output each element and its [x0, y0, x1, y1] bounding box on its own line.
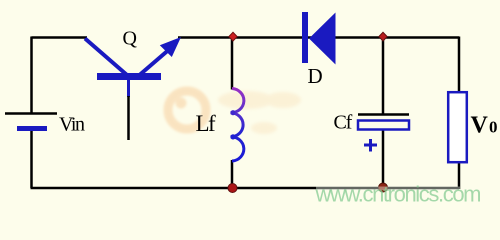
svg-text:D: D	[308, 64, 323, 88]
transistor Q collector diagonal	[85, 39, 127, 76]
transistor Q emitter arrowhead	[160, 37, 181, 57]
svg-text:Lf: Lf	[196, 111, 217, 136]
svg-text:www.cntronics.com: www.cntronics.com	[315, 182, 482, 207]
wire top-right segment	[178, 36, 459, 39]
capacitor Cf plus sign	[364, 139, 377, 152]
wire inductor bottom lead	[231, 160, 234, 188]
inductor Lf coil	[231, 89, 244, 162]
svg-text:Vin: Vin	[59, 114, 85, 136]
wire left lower	[30, 130, 33, 188]
wire bottom	[31, 187, 460, 190]
inductor Lf cusp knob 1	[230, 110, 235, 115]
capacitor Cf bottom plate box	[358, 121, 409, 130]
svg-text:0: 0	[489, 118, 498, 137]
resistor V0 body	[448, 92, 467, 162]
watermark overlay lightening wire	[316, 187, 460, 191]
watermark orange text blobs	[218, 91, 301, 134]
junction dot bottom right	[379, 183, 388, 192]
svg-text:Q: Q	[123, 28, 138, 50]
wire left upper	[30, 37, 33, 114]
wire capacitor bottom lead	[382, 129, 385, 188]
svg-text:Cf: Cf	[334, 112, 353, 134]
inductor Lf cusp knob 2	[230, 134, 235, 139]
svg-text:V: V	[471, 113, 489, 139]
battery Vin bottom plate	[17, 126, 47, 131]
battery Vin top plate	[5, 112, 57, 115]
junction dot bottom left	[228, 184, 237, 193]
watermark orange logo ring	[168, 91, 206, 129]
transistor Q base bar	[97, 73, 161, 80]
capacitor Cf top plate	[358, 113, 409, 116]
transistor Q base lead blue	[127, 79, 130, 97]
wire right lower	[458, 162, 461, 189]
junction dot top right (diamond)	[379, 32, 387, 41]
wire top-left segment	[32, 36, 88, 39]
diode D cathode bar	[302, 12, 308, 63]
wire inductor top lead	[231, 38, 234, 90]
transistor Q emitter diagonal	[136, 47, 172, 78]
wire capacitor top lead	[382, 38, 385, 115]
transistor Q base lead black	[127, 96, 130, 140]
diode D triangle	[309, 13, 336, 65]
junction dot top left (diamond)	[229, 32, 237, 41]
wire right upper	[458, 37, 461, 94]
